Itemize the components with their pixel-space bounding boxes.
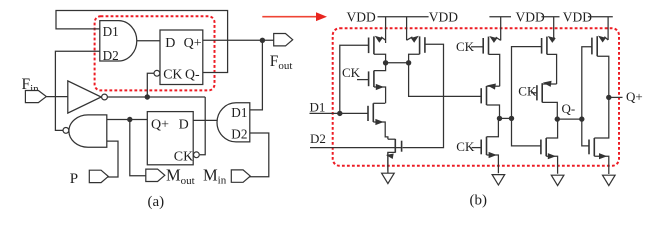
wire inverter output (clock node) <box>107 96 205 98</box>
NAND G3 output bubble <box>63 127 69 133</box>
D flip-flop U2 (D, Q+, CK, Q-) <box>160 30 203 85</box>
label M_out <box>166 166 195 187</box>
svg-text:(a): (a) <box>148 194 165 210</box>
svg-text:D1: D1 <box>310 100 326 115</box>
wire Q- node to M12 gate <box>582 47 592 119</box>
label CK (M10 gate) <box>518 84 537 99</box>
transistor M7 (gate node Y, second stage) <box>481 84 500 119</box>
PMOS M9 (gate stage-2 node, third stage) <box>542 17 557 84</box>
wire DFF2 Q+ to NAND input <box>107 119 148 121</box>
wire D1 rail to M1 gate <box>340 45 369 113</box>
NMOS M8 (gate CK, second stage) <box>472 118 499 173</box>
VDD rail 2 <box>489 16 511 18</box>
AND gate G2 (inputs D1, D2, mirrored) <box>217 103 250 142</box>
wire F_out node to AND gate G2 upper input <box>250 40 263 110</box>
label P <box>70 171 78 187</box>
svg-text:Q+: Q+ <box>151 117 169 132</box>
label Q- <box>562 101 576 116</box>
PMOS M1 (gate D1, first stage pull-up) <box>369 17 386 63</box>
label VDD (rail 1 right) <box>429 9 458 24</box>
dashed box around transistor schematic (b) <box>333 28 619 166</box>
AND gate G1 (inputs D1, D2) <box>100 21 137 64</box>
transistor M10 (gate CK, third stage) <box>531 81 557 119</box>
junction dot F_out node <box>260 38 265 43</box>
NMOS M4 (gate D1, first stage) <box>368 103 388 139</box>
PMOS M12 (gate Q-, output stage) <box>592 17 609 98</box>
junction dot Q- left <box>555 116 560 121</box>
ground symbol second stage <box>492 175 505 185</box>
junction dot clock node <box>145 94 150 99</box>
label CK (M3 gate) <box>342 65 361 80</box>
PMOS M2 (gate D2, first stage pull-up, mirrored) <box>407 17 425 63</box>
caption (a) <box>148 194 165 210</box>
label CK (M6 gate) <box>456 39 475 54</box>
junction dot D1 node <box>337 111 342 116</box>
input port F_in <box>25 91 46 103</box>
wire stage2 node to M9 gate <box>512 47 542 119</box>
junction dot node Y left <box>383 60 388 65</box>
ground symbol first stage <box>382 152 395 183</box>
DFF1 CK inversion bubble <box>154 70 160 76</box>
svg-text:VDD: VDD <box>429 9 458 24</box>
VDD rail 4 <box>588 16 613 18</box>
ground symbol third stage <box>551 175 564 185</box>
inverter U1 <box>68 81 108 113</box>
NMOS M11 (gate stage-2 node, third stage) <box>541 119 558 174</box>
ground symbol output stage <box>603 175 616 185</box>
NAND gate G3 (mirrored, output bubble left) <box>69 115 107 147</box>
label VDD (rail 3) <box>563 9 592 24</box>
junction dot node Y right <box>406 60 411 65</box>
svg-text:D2: D2 <box>231 127 247 142</box>
wire P to NAND lower input <box>107 141 118 177</box>
svg-text:Q+: Q+ <box>626 89 643 104</box>
svg-text:VDD: VDD <box>516 9 545 24</box>
svg-text:Q-: Q- <box>185 66 200 81</box>
label F_in <box>22 76 40 95</box>
svg-text:D1: D1 <box>103 24 119 39</box>
label F_out <box>270 53 293 72</box>
NMOS M5 (gate D2, first stage, mirrored) <box>386 139 402 171</box>
DFF2 CK inversion bubble <box>194 152 200 158</box>
wire M_in to AND G2 lower input <box>249 133 268 177</box>
wire Q+ output <box>609 96 623 98</box>
wire stage2 node to M11 gate <box>512 118 541 145</box>
red arrow from block (a) to schematic (b) <box>262 12 327 21</box>
wire AND G1 output to DFF1 D input <box>137 40 160 42</box>
label CK (M8 gate) <box>456 139 475 154</box>
wire branch down to M_out port <box>130 120 146 176</box>
wire NAND output to AND1 D2 input <box>55 51 99 130</box>
label Q+ <box>626 89 643 104</box>
dashed selection box around AND gate and DFF1 (block implemented in (b)) <box>95 16 215 90</box>
label D1 <box>310 100 326 115</box>
label M_in <box>203 165 227 186</box>
NMOS M13 (gate Q-, output stage) <box>589 97 609 174</box>
svg-text:(b): (b) <box>470 193 488 209</box>
svg-text:D: D <box>165 36 175 51</box>
svg-text:Q-: Q- <box>562 101 576 116</box>
wire Q- feedback (DFF1 Q- to AND1 D1 input) <box>56 11 228 73</box>
svg-text:CK: CK <box>518 84 537 99</box>
svg-text:D: D <box>179 117 189 132</box>
svg-text:VDD: VDD <box>347 9 376 24</box>
junction dot Q+ node <box>606 95 611 100</box>
junction dot stage2 node right <box>509 116 514 121</box>
wire clock node up to DFF1 CK bubble <box>147 73 154 97</box>
wire D2 input <box>310 147 402 149</box>
svg-text:VDD: VDD <box>563 9 592 24</box>
label VDD (rail 2) <box>516 9 545 24</box>
input port M_in <box>231 170 250 182</box>
D flip-flop U3 (Q+, D, CK) <box>147 112 193 165</box>
junction dot Q- right <box>579 116 584 121</box>
svg-text:D2: D2 <box>310 131 326 146</box>
wire AND G2 output to DFF2 D input <box>193 119 217 121</box>
svg-text:CK: CK <box>174 149 193 164</box>
caption (b) <box>470 193 488 209</box>
PMOS M6 (gate CK, second stage) <box>471 17 501 86</box>
svg-text:D1: D1 <box>231 105 247 120</box>
VDD rail 1 <box>378 16 429 18</box>
svg-text:P: P <box>70 171 78 187</box>
wire Q- node <box>557 118 582 120</box>
wire node Y to M7 gate <box>409 63 482 97</box>
output port F_out <box>274 34 293 46</box>
wire second stage node <box>500 117 512 119</box>
svg-text:D2: D2 <box>103 48 119 63</box>
svg-text:CK: CK <box>456 139 475 154</box>
label VDD (rail 1) <box>347 9 376 24</box>
wire D1 input <box>310 112 369 114</box>
wire node Y (M1/M2 drains) <box>386 62 409 64</box>
input port P <box>89 170 108 182</box>
svg-text:CK: CK <box>342 65 361 80</box>
wire M2 gate to D2 line <box>403 44 444 147</box>
svg-text:CK: CK <box>163 66 182 81</box>
NMOS M3 (gate CK, first stage) <box>357 63 386 104</box>
label D2 <box>310 131 326 146</box>
junction dot stage2 node left <box>497 116 502 121</box>
svg-text:Q+: Q+ <box>184 36 202 51</box>
wire DFF1 Q+ to F_out <box>203 39 274 41</box>
wire F_in to inverter <box>46 96 68 98</box>
VDD rail 3 <box>541 16 559 18</box>
wire Q- node to M13 gate <box>582 119 589 146</box>
output port M_out <box>146 169 165 181</box>
junction dot M_out branch <box>127 117 132 122</box>
wire clock node down to DFF2 CK bubble <box>200 97 205 155</box>
